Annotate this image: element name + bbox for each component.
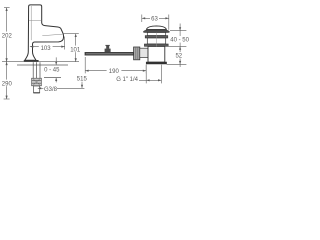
svg-text:52: 52 <box>175 54 182 60</box>
svg-text:290: 290 <box>2 81 13 87</box>
svg-text:G 1" 1/4: G 1" 1/4 <box>116 77 138 83</box>
svg-text:190: 190 <box>109 69 120 75</box>
svg-text:0 - 45: 0 - 45 <box>44 68 60 74</box>
svg-text:63: 63 <box>151 17 158 23</box>
svg-text:515: 515 <box>77 77 88 83</box>
svg-text:103: 103 <box>41 46 52 52</box>
svg-text:101: 101 <box>70 47 81 53</box>
svg-text:G3/8: G3/8 <box>44 87 58 93</box>
svg-text:202: 202 <box>2 33 13 39</box>
svg-text:40 - 50: 40 - 50 <box>170 38 189 44</box>
